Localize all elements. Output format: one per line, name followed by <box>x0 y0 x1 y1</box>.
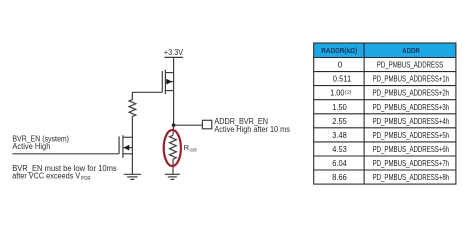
ground (RADDR) <box>165 174 180 179</box>
svg-text:+3.3V: +3.3V <box>164 48 184 57</box>
wire RADDR to ground <box>172 159 174 174</box>
transistor Q1 (PMOS) <box>162 70 173 94</box>
note BVR_EN must be low for 10ms after VCC exceeds VPOR <box>12 164 117 182</box>
label ADDR_BVR_EN <box>214 117 290 134</box>
transistor Q2 (NMOS) <box>119 135 132 158</box>
svg-text:Active High: Active High <box>12 142 50 151</box>
wire Q1 drain to node A <box>173 91 175 126</box>
label RADDR value <box>184 143 197 153</box>
svg-text:PD_PMBUS_ADDRESS+4h: PD_PMBUS_ADDRESS+4h <box>373 117 450 126</box>
pin ADDR_BVR_EN (terminal box) <box>202 120 211 129</box>
svg-text:PD_PMBUS_ADDRESS+3h: PD_PMBUS_ADDRESS+3h <box>373 103 450 112</box>
svg-text:ADDR: ADDR <box>189 148 197 154</box>
resistor RADDR <box>170 135 177 159</box>
table RADDR to ADDR mapping <box>314 43 456 184</box>
svg-text:1.50: 1.50 <box>332 103 347 112</box>
table grid <box>314 43 456 184</box>
svg-text:PD_PMBUS_ADDRESS+6h: PD_PMBUS_ADDRESS+6h <box>373 145 450 154</box>
svg-text:0.511: 0.511 <box>333 75 352 84</box>
svg-text:PD_PMBUS_ADDRESS: PD_PMBUS_ADDRESS <box>377 61 444 70</box>
wire Q1 gate to R1 <box>132 92 162 99</box>
svg-text:after VCC exceeds V: after VCC exceeds V <box>12 172 81 181</box>
resistor R1 <box>129 100 136 117</box>
svg-text:8.66: 8.66 <box>332 173 347 182</box>
svg-text:ADDR: ADDR <box>402 48 420 55</box>
svg-text:4.53: 4.53 <box>332 145 347 154</box>
svg-text:PD_PMBUS_ADDRESS+2h: PD_PMBUS_ADDRESS+2h <box>373 89 450 98</box>
svg-text:PD_PMBUS_ADDRESS+7h: PD_PMBUS_ADDRESS+7h <box>373 159 450 168</box>
svg-text:1.00: 1.00 <box>330 89 345 98</box>
power +3.3V rail <box>165 56 184 58</box>
svg-text:Active High after 10 ms: Active High after 10 ms <box>214 125 290 134</box>
label +3.3V <box>164 48 184 57</box>
wire node A to pin ADDR_BVR_EN <box>174 124 203 126</box>
svg-text:RADDR(kΩ): RADDR(kΩ) <box>321 48 357 55</box>
wire R1 to Q2 drain <box>131 116 133 137</box>
svg-text:3.48: 3.48 <box>332 131 347 140</box>
svg-text:0: 0 <box>338 61 343 70</box>
highlight ellipse around RADDR <box>164 130 181 166</box>
table header text <box>321 48 420 55</box>
wire node A to resistor RADDR <box>172 125 175 135</box>
wire Q2 source to ground <box>131 154 133 175</box>
label BVR_EN (system) Active High <box>12 134 69 151</box>
svg-text:PD_PMBUS_ADDRESS+1h: PD_PMBUS_ADDRESS+1h <box>373 75 450 84</box>
node A (junction) <box>172 123 176 127</box>
ground (Q2 source) <box>124 174 141 179</box>
svg-text:(2): (2) <box>345 90 352 95</box>
wire BVR_EN to Q2 gate <box>12 153 119 155</box>
table body text <box>330 61 449 183</box>
svg-text:PD_PMBUS_ADDRESS+8h: PD_PMBUS_ADDRESS+8h <box>373 173 450 182</box>
svg-text:6.04: 6.04 <box>332 159 347 168</box>
svg-text:PD_PMBUS_ADDRESS+5h: PD_PMBUS_ADDRESS+5h <box>373 131 450 140</box>
svg-text:2.55: 2.55 <box>332 117 347 126</box>
svg-text:POR: POR <box>81 176 91 182</box>
table header fill <box>314 43 456 58</box>
wire rail to Q1 source <box>173 57 175 72</box>
